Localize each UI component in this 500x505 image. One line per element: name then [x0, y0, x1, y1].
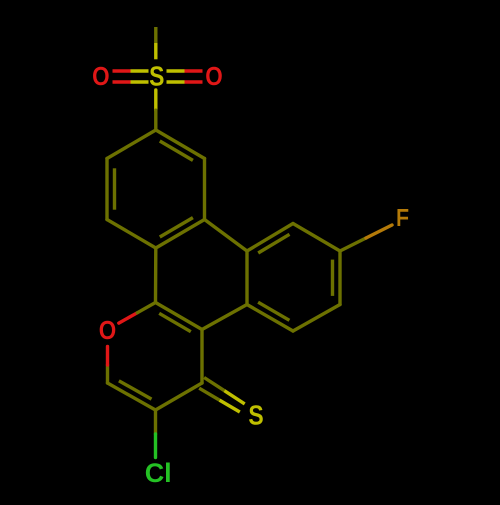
double bond S=O left line lower — [113, 80, 149, 83]
ring B edge lower-left to bottom — [247, 305, 293, 332]
bond C3 to ring B lower-left — [202, 305, 247, 330]
ring B edge right vertical — [338, 251, 341, 305]
ring B inner double line bottom/lower-left — [258, 302, 289, 320]
atom label O right — [205, 61, 223, 91]
bond C5=C6 main — [108, 383, 156, 410]
atom label O left — [92, 61, 110, 91]
ring B edge top to upper-left — [247, 224, 293, 252]
svg-text:S: S — [149, 60, 164, 91]
svg-text:O: O — [92, 61, 110, 91]
bond sulfonyl S to ring A top — [154, 90, 157, 130]
bond C3-C4 — [200, 330, 203, 384]
bond C5=C6 inner line — [119, 381, 152, 399]
bond C4-C5 — [156, 383, 203, 410]
bond ring B upper-right to F — [340, 225, 392, 251]
bond ring A bottom to C2 — [154, 248, 158, 303]
atom label S sulfonyl — [149, 60, 164, 91]
ring B inner double line top/upper-left — [258, 234, 289, 253]
ring A inner double line lower-right/bottom — [160, 218, 193, 237]
bond C2=C3 inner line — [159, 313, 191, 331]
ring A edge bottom to lower-left — [107, 220, 156, 249]
svg-text:F: F — [396, 204, 408, 230]
double bond S=O right line upper — [167, 69, 203, 72]
double bond S=O right line lower — [167, 80, 203, 83]
double bond C4=S line lower — [199, 388, 240, 412]
ring A edge left vertical — [105, 159, 108, 220]
svg-text:O: O — [205, 61, 223, 91]
atom label Cl — [145, 458, 172, 488]
bond CH3-S (methyl to sulfonyl S) — [154, 27, 157, 59]
ring B inner double line right vertical — [331, 260, 334, 296]
svg-text:S: S — [248, 400, 263, 431]
bond O1-C2 — [119, 303, 156, 324]
ring A edge upper-left to top — [107, 130, 156, 159]
atom label S thione — [248, 400, 263, 431]
atom label O1 ring oxygen — [99, 315, 117, 345]
atom label F — [396, 204, 408, 230]
svg-text:Cl: Cl — [145, 458, 172, 488]
ring A edge top to upper-right — [156, 130, 205, 159]
double bond C4=S line upper — [204, 378, 245, 404]
ring B edge bottom to lower-right — [293, 305, 340, 332]
ring A inner double line top/upper-right — [160, 141, 193, 160]
ring A edge lower-right to bottom — [156, 220, 205, 249]
ring B edge upper-left vertical — [245, 251, 248, 305]
ring A inner double line left vertical — [113, 168, 116, 209]
bond C5-Cl — [154, 410, 157, 458]
bond ring A lower-right to ring B upper-left — [205, 220, 248, 252]
bond C2=C3 main — [156, 303, 203, 330]
bond C6-O1 — [106, 347, 109, 384]
ring B edge upper-right to top — [293, 224, 340, 252]
svg-text:O: O — [99, 315, 117, 345]
double bond S=O left line upper — [113, 69, 149, 72]
ring A edge right vertical — [203, 159, 206, 220]
